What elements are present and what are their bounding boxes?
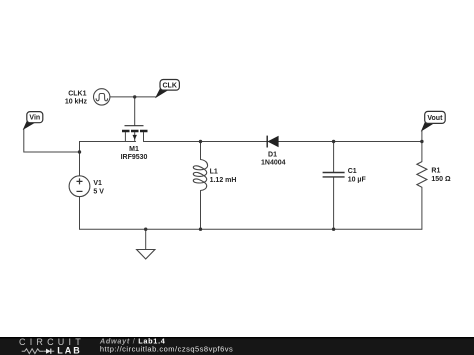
node flag CLK [156, 80, 179, 97]
svg-text:C1: C1 [348, 168, 357, 175]
svg-text:LAB: LAB [57, 346, 82, 355]
svg-text:Vin: Vin [29, 115, 40, 122]
wire V1 bottom lead [79, 197, 81, 230]
wire clock node [110, 96, 156, 98]
svg-text:D1: D1 [268, 152, 277, 159]
wire C1 top lead [333, 142, 335, 173]
inductor L1 [193, 160, 207, 191]
resistor R1 [417, 162, 427, 188]
node dot clock-gate junction [133, 95, 136, 98]
svg-text:1N4004: 1N4004 [261, 160, 286, 167]
svg-text:10 kHz: 10 kHz [65, 99, 88, 106]
svg-text:10 µF: 10 µF [348, 177, 367, 184]
wire bottom rail [80, 228, 422, 230]
wire L1 bottom lead [200, 191, 202, 230]
wire R1 top lead [421, 142, 423, 162]
svg-text:150 Ω: 150 Ω [431, 176, 451, 183]
svg-text:5 V: 5 V [93, 188, 104, 195]
logo resistor glyph [22, 349, 44, 354]
svg-text:R1: R1 [431, 168, 440, 175]
footer bar [0, 337, 474, 355]
svg-text:http://circuitlab.com/czsq5s8v: http://circuitlab.com/czsq5s8vpf6vs [100, 344, 233, 353]
svg-text:V1: V1 [93, 180, 102, 187]
wire top-left rail [80, 141, 136, 143]
node dot Vout junction [420, 140, 423, 143]
node dot L1 top [199, 140, 202, 143]
clock source CLK1 [94, 89, 110, 105]
node dot L1 bottom [199, 228, 202, 231]
svg-text:CLK1: CLK1 [68, 91, 86, 98]
wire gate lead [134, 97, 136, 126]
logo diode glyph [44, 349, 55, 354]
wire C1 bottom lead [333, 177, 335, 229]
node dot ground [144, 228, 147, 231]
wire Vin drop [24, 129, 80, 152]
diode D1 [267, 136, 278, 148]
svg-text:CLK: CLK [163, 82, 177, 89]
wire V1 top lead [79, 142, 81, 176]
svg-text:1.12 mH: 1.12 mH [210, 177, 237, 184]
node dot C1 top [332, 140, 335, 143]
svg-text:L1: L1 [210, 169, 218, 176]
capacitor C1 [323, 173, 345, 177]
transistor M1 [122, 126, 148, 142]
wire R1 bottom lead [421, 187, 423, 229]
wire Vout stub [421, 130, 423, 141]
node flag Vout [422, 111, 445, 130]
node dot C1 bottom [332, 228, 335, 231]
wire ground stem [145, 229, 147, 249]
svg-text:IRF9530: IRF9530 [121, 154, 148, 161]
node dot Vin junction [78, 150, 81, 153]
voltage source V1 [69, 176, 90, 197]
svg-text:Vout: Vout [427, 115, 443, 122]
node flag Vin [24, 112, 43, 129]
svg-text:M1: M1 [129, 146, 139, 153]
wire top rail right [144, 141, 422, 143]
ground [137, 250, 155, 260]
wire L1 top lead [200, 142, 202, 160]
